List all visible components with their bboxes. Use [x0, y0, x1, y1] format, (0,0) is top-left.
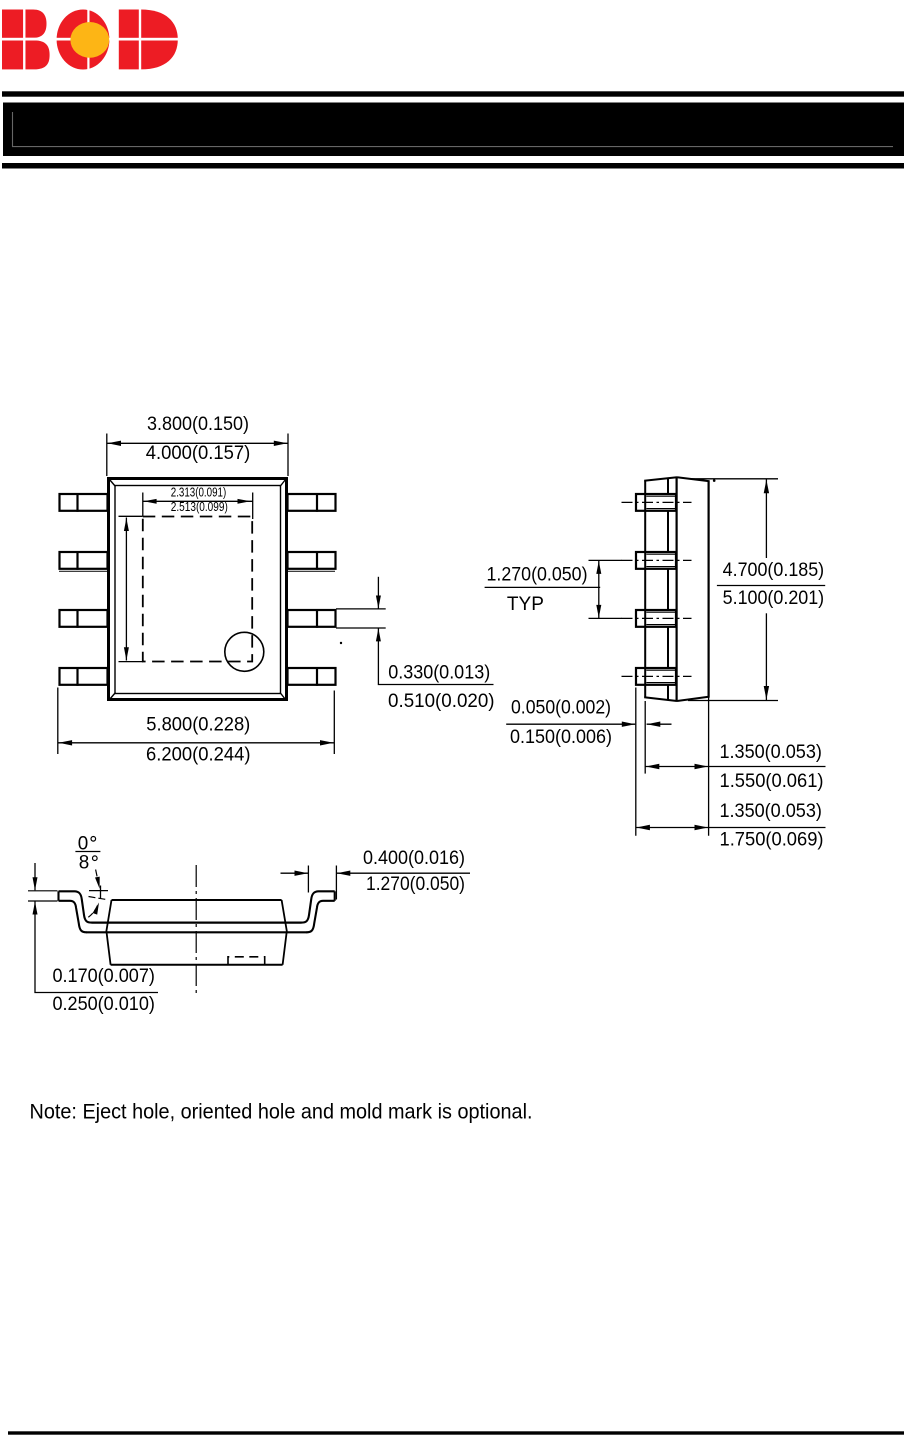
svg-text:1.750(0.069): 1.750(0.069)	[720, 830, 824, 851]
svg-text:2.513(0.099): 2.513(0.099)	[171, 499, 228, 514]
svg-text:3.800(0.150): 3.800(0.150)	[147, 414, 249, 435]
svg-text:1.550(0.061): 1.550(0.061)	[720, 771, 824, 792]
svg-text:1.350(0.053): 1.350(0.053)	[719, 742, 822, 763]
svg-text:0.330(0.013): 0.330(0.013)	[388, 662, 490, 683]
svg-text:1.270(0.050): 1.270(0.050)	[487, 565, 588, 586]
svg-text:TYP: TYP	[507, 594, 544, 615]
svg-text:8: 8	[79, 853, 90, 874]
svg-text:2.313(0.091): 2.313(0.091)	[171, 484, 227, 499]
svg-text:0.150(0.006): 0.150(0.006)	[510, 727, 612, 748]
svg-text:1.350(0.053): 1.350(0.053)	[719, 801, 822, 822]
svg-text:1.270(0.050): 1.270(0.050)	[366, 874, 465, 895]
svg-text:4.700(0.185): 4.700(0.185)	[723, 560, 825, 581]
svg-text:Note: Eject hole, oriented hol: Note: Eject hole, oriented hole and mold…	[30, 1100, 533, 1123]
svg-text:0.170(0.007): 0.170(0.007)	[52, 966, 155, 987]
svg-text:0.510(0.020): 0.510(0.020)	[388, 691, 495, 712]
svg-text:5.100(0.201): 5.100(0.201)	[723, 588, 825, 609]
svg-text:4.000(0.157): 4.000(0.157)	[146, 443, 251, 464]
svg-text:0.050(0.002): 0.050(0.002)	[511, 698, 611, 719]
svg-text:0: 0	[78, 833, 89, 854]
svg-text:0.250(0.010): 0.250(0.010)	[52, 994, 155, 1015]
svg-text:6.200(0.244): 6.200(0.244)	[146, 744, 251, 765]
svg-text:5.800(0.228): 5.800(0.228)	[146, 714, 250, 735]
svg-text:0.400(0.016): 0.400(0.016)	[363, 848, 465, 869]
